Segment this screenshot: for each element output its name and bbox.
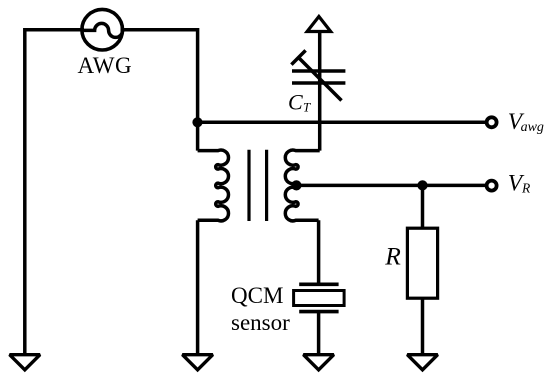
svg-text:R: R [384,242,401,271]
wire node A to Vawg terminal [198,121,487,125]
wire tap to VR terminal [296,184,486,188]
resistor R body [407,228,437,298]
wire primary bottom to ground [196,220,200,355]
svg-text:R: R [521,181,531,196]
QCM crystal X1 body [294,291,345,306]
terminal VR open circle [487,181,497,191]
trimmer capacitor CT diagonal [299,58,342,101]
transformer T1 core lines [249,150,267,221]
ground under resistor [407,355,437,370]
trimmer capacitor CT plates [292,71,345,83]
node C junction dot above resistor [417,180,427,190]
svg-text:C: C [288,89,303,114]
wire top-left horizontal from left rail to AWG [25,28,84,32]
svg-text:AWG: AWG [78,53,133,78]
wire secondary bottom to QCM crystal [317,220,321,284]
svg-text:T: T [303,100,311,115]
wire left rail vertical [23,28,27,355]
trimmer capacitor CT T-bar [291,50,305,64]
svg-text:QCM: QCM [231,283,283,308]
transformer T1 secondary winding (right coil) [285,150,319,221]
svg-text:sensor: sensor [231,310,290,335]
wire CT branch vertical [318,32,322,151]
transformer T1 primary winding (left coil) [198,150,229,221]
wire resistor R bottom to ground [421,298,425,355]
ground left rail [10,355,40,370]
wire QCM crystal to ground [317,312,321,355]
voltage source U1 AWG circle [82,9,123,50]
ground under QCM crystal [303,355,333,370]
node B junction dot on secondary tap [291,180,301,190]
terminal Vawg open circle [487,117,497,127]
svg-text:awg: awg [521,120,544,135]
node A junction dot [192,117,202,127]
ground under primary [182,355,212,370]
wire AWG to top-right corner and down to node A [121,30,198,151]
QCM crystal X1 top plate [299,282,338,286]
QCM crystal X1 bottom plate [299,310,338,314]
off-page arrow above CT [307,17,331,32]
wire node C to resistor R top [421,185,425,228]
sine wave inside AWG [84,23,123,37]
